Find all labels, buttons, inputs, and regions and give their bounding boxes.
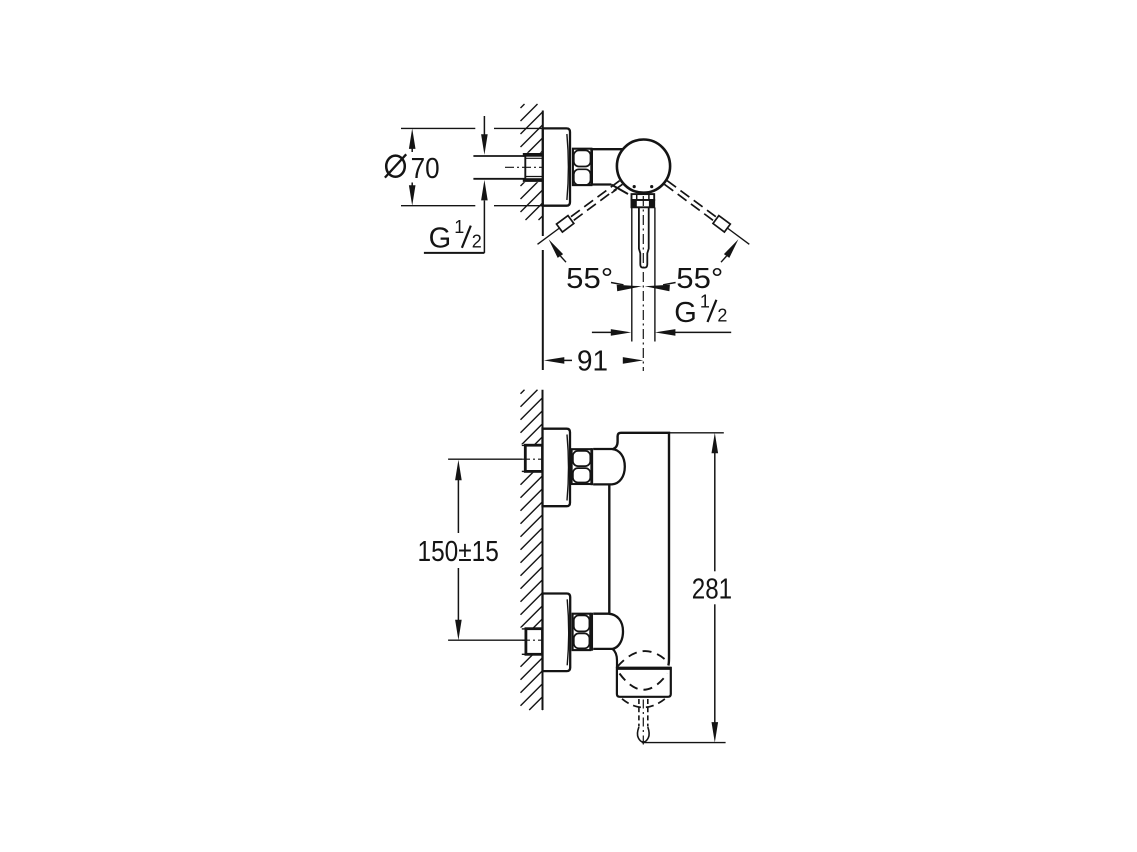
- svg-text:70: 70: [411, 153, 440, 185]
- hidden dome above outlet (dashed): [618, 651, 670, 666]
- upper union centreline: [522, 458, 543, 460]
- svg-text:2: 2: [717, 306, 727, 326]
- Ø70 extension line top: [401, 127, 475, 129]
- flange face curve: [567, 134, 569, 200]
- Ø70 extension line bottom: [401, 205, 475, 207]
- union nut (top view): [573, 149, 592, 185]
- 55&#176; arc arrow at left swing line: [549, 239, 564, 258]
- lower union centreline: [522, 639, 543, 641]
- upper union nut: [572, 449, 592, 484]
- lower union nut: [573, 614, 591, 650]
- lever centreline: [642, 196, 644, 371]
- dimension 91: [544, 357, 565, 364]
- lower wall union (in-wall thread): [526, 629, 543, 655]
- upper wall union (in-wall thread): [525, 445, 542, 471]
- lever grip tip (right swung): [713, 216, 730, 232]
- lower union dome: [593, 614, 623, 649]
- wall hatch top-view: [521, 104, 543, 220]
- pipe thread shading bars: [523, 153, 543, 157]
- lever clamp band 1: [632, 194, 655, 200]
- svg-text:281: 281: [692, 573, 732, 605]
- wall line (top view): [542, 111, 544, 237]
- svg-text:91: 91: [577, 346, 608, 378]
- lever swung 55&#176; left (dashed): [571, 181, 620, 217]
- dimension 281: [669, 432, 724, 434]
- knob pivot dots: [633, 185, 636, 188]
- lever clamp band 2: [632, 200, 655, 207]
- pipe centreline: [505, 166, 543, 168]
- body chamfer to handle: [611, 185, 628, 195]
- wall hatch side-view: [521, 390, 543, 710]
- dimension 150±15: [448, 458, 522, 460]
- upper union dome: [593, 449, 625, 484]
- hidden contour below cup (dashed): [622, 699, 665, 708]
- wall line (side view): [542, 390, 544, 710]
- svg-text:G: G: [674, 297, 697, 329]
- dimension G1/2 (wall connection) leader: [483, 116, 485, 136]
- nipple centreline: [642, 700, 644, 748]
- svg-text:2: 2: [472, 231, 482, 251]
- outlet cup (mousseur housing): [617, 668, 671, 697]
- dimension G1/2 (outlet): [592, 331, 612, 333]
- lower escutcheon flange (side view): [543, 594, 571, 672]
- swing line solid extension (left): [538, 228, 560, 244]
- valve body (top view): [591, 148, 624, 150]
- mixer body outline: [613, 433, 670, 666]
- body left edge: [608, 484, 610, 614]
- svg-text:150±15: 150±15: [418, 536, 499, 568]
- wall flange / escutcheon (top view): [543, 128, 570, 205]
- body to outlet transition: [613, 649, 618, 668]
- svg-text:55°: 55°: [676, 263, 723, 295]
- lever swung 55&#176; right (dashed): [667, 181, 716, 217]
- svg-text:1: 1: [454, 217, 464, 237]
- lever handle (centre position): [639, 208, 649, 268]
- white cover for wall unions: [518, 444, 543, 472]
- hose outlet nipple: [638, 699, 640, 727]
- supply pipe (in wall): [518, 153, 543, 182]
- pipe bore lines: [525, 157, 542, 159]
- svg-text:1: 1: [700, 291, 710, 311]
- lever grip tip (left swung): [557, 216, 574, 232]
- svg-text:55°: 55°: [566, 263, 613, 295]
- 55&#176; arc arrows at centre: [617, 285, 642, 292]
- 55&#176; arc arrow at right swing line: [724, 239, 739, 258]
- upper escutcheon flange (side view): [543, 429, 571, 507]
- handle knob (top view circle): [617, 140, 670, 193]
- hidden contour inside cup (dashed): [620, 674, 668, 690]
- dimension Ø70: [411, 148, 413, 153]
- swing line solid extension (right): [727, 228, 749, 244]
- shower outlet silhouette / extension lines G1/2: [631, 208, 633, 342]
- svg-text:G: G: [429, 223, 452, 255]
